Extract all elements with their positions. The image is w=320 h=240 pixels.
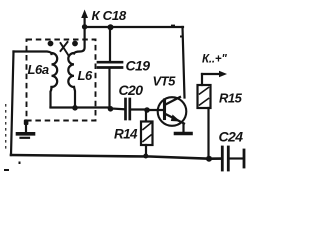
svg-text:С19: С19 <box>126 58 151 74</box>
svg-text:К С18: К С18 <box>92 8 127 23</box>
svg-text:С20: С20 <box>119 82 144 98</box>
svg-text:L6: L6 <box>78 68 94 83</box>
svg-text:R14: R14 <box>114 127 138 142</box>
svg-text:VT5: VT5 <box>153 74 177 89</box>
svg-text:R15: R15 <box>219 91 243 106</box>
svg-text:С24: С24 <box>219 129 244 145</box>
svg-text:L6а: L6а <box>28 62 49 77</box>
svg-text:К..+": К..+" <box>202 54 227 66</box>
